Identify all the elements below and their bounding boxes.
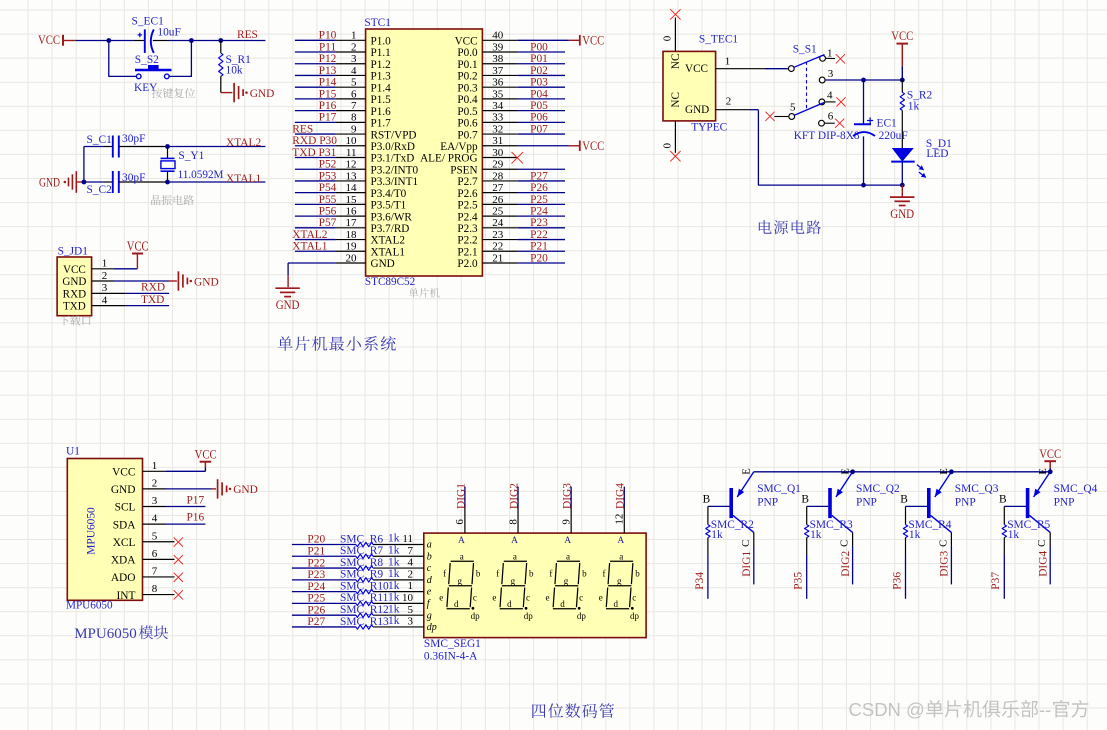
- svg-text:1k: 1k: [388, 533, 400, 545]
- svg-text:d: d: [560, 599, 565, 609]
- svg-text:GND: GND: [276, 298, 300, 312]
- svg-text:P21: P21: [530, 241, 548, 253]
- svg-text:1k: 1k: [711, 529, 723, 541]
- svg-text:P57: P57: [319, 217, 337, 229]
- svg-text:E: E: [939, 468, 950, 474]
- svg-text:VCC: VCC: [112, 467, 135, 479]
- svg-text:P21: P21: [307, 545, 325, 557]
- svg-text:11: 11: [402, 533, 413, 545]
- svg-text:S_JD1: S_JD1: [58, 245, 89, 257]
- svg-text:P0.0: P0.0: [457, 47, 478, 59]
- svg-text:P0.2: P0.2: [457, 71, 477, 83]
- svg-text:INT: INT: [117, 590, 136, 602]
- svg-text:P34: P34: [694, 572, 706, 590]
- svg-text:a: a: [427, 540, 432, 551]
- svg-text:P25: P25: [307, 593, 325, 605]
- svg-text:1k: 1k: [388, 544, 400, 556]
- svg-text:GND: GND: [685, 104, 709, 116]
- svg-text:P2.4: P2.4: [457, 211, 478, 223]
- svg-text:PNP: PNP: [1054, 497, 1075, 509]
- svg-text:11.0592M: 11.0592M: [178, 169, 224, 181]
- svg-text:VCC: VCC: [891, 29, 913, 43]
- svg-text:5: 5: [152, 530, 158, 542]
- svg-text:b: b: [635, 569, 640, 579]
- svg-text:g: g: [458, 576, 463, 586]
- svg-text:P3.4/T0: P3.4/T0: [371, 188, 407, 200]
- svg-text:P17: P17: [186, 495, 204, 507]
- svg-text:VCC: VCC: [63, 264, 86, 276]
- svg-text:S_C2: S_C2: [87, 184, 113, 196]
- svg-text:A: A: [617, 536, 624, 546]
- svg-text:P25: P25: [530, 194, 548, 206]
- svg-text:EA/Vpp: EA/Vpp: [440, 141, 478, 153]
- svg-text:0: 0: [662, 35, 674, 41]
- svg-text:XTAL1: XTAL1: [371, 246, 406, 258]
- svg-text:g: g: [427, 610, 432, 621]
- svg-text:b: b: [427, 551, 432, 562]
- svg-text:PNP: PNP: [856, 497, 877, 509]
- svg-text:P56: P56: [319, 206, 337, 218]
- svg-text:P22: P22: [307, 557, 325, 569]
- svg-text:SMC_Q3: SMC_Q3: [955, 483, 999, 495]
- svg-text:GND: GND: [62, 276, 86, 288]
- svg-text:2: 2: [408, 568, 414, 580]
- svg-text:SMC_R7: SMC_R7: [340, 545, 383, 557]
- svg-text:4: 4: [408, 557, 414, 569]
- svg-text:P27: P27: [307, 616, 325, 628]
- svg-text:P15: P15: [319, 88, 337, 100]
- svg-text:7: 7: [152, 566, 158, 578]
- svg-text:P35: P35: [793, 572, 805, 590]
- svg-text:1k: 1k: [810, 529, 822, 541]
- svg-text:P1.2: P1.2: [371, 59, 391, 71]
- svg-text:P26: P26: [307, 604, 325, 616]
- svg-text:MPU6050: MPU6050: [74, 626, 137, 642]
- svg-text:MPU6050: MPU6050: [86, 507, 98, 555]
- svg-text:2: 2: [102, 270, 108, 282]
- svg-text:9: 9: [560, 519, 572, 525]
- svg-text:STC89C52: STC89C52: [365, 276, 415, 288]
- svg-text:P37: P37: [990, 572, 1002, 590]
- svg-text:g: g: [617, 576, 622, 586]
- svg-text:E: E: [1038, 468, 1049, 474]
- svg-text:SMC_Q2: SMC_Q2: [856, 483, 900, 495]
- svg-text:3: 3: [102, 282, 108, 294]
- svg-text:SMC_Q4: SMC_Q4: [1054, 483, 1098, 495]
- svg-text:RES: RES: [292, 123, 313, 135]
- svg-text:P2.6: P2.6: [457, 188, 478, 200]
- svg-text:e: e: [599, 593, 603, 603]
- svg-text:P20: P20: [307, 534, 325, 546]
- svg-text:e: e: [546, 593, 550, 603]
- svg-text:B: B: [900, 494, 908, 506]
- svg-text:P3.5/T1: P3.5/T1: [371, 200, 407, 212]
- svg-text:P2.7: P2.7: [457, 176, 478, 188]
- svg-text:DIG4: DIG4: [1038, 551, 1050, 577]
- svg-text:GND: GND: [250, 88, 275, 100]
- svg-text:e: e: [427, 587, 432, 598]
- svg-text:6: 6: [828, 111, 834, 123]
- svg-text:TXD P31: TXD P31: [292, 147, 336, 159]
- svg-text:c: c: [427, 563, 432, 574]
- svg-text:f: f: [602, 569, 605, 579]
- svg-text:1k: 1k: [909, 529, 921, 541]
- svg-text:P10: P10: [319, 30, 337, 42]
- svg-text:B: B: [999, 494, 1007, 506]
- svg-text:SDA: SDA: [113, 519, 137, 531]
- svg-text:8: 8: [152, 583, 158, 595]
- svg-text:STC1: STC1: [364, 17, 391, 29]
- svg-text:SCL: SCL: [115, 502, 136, 514]
- svg-text:c: c: [579, 593, 583, 603]
- svg-text:PNP: PNP: [757, 497, 778, 509]
- svg-text:P23: P23: [307, 569, 325, 581]
- svg-text:4: 4: [102, 294, 108, 306]
- svg-text:P06: P06: [530, 112, 548, 124]
- svg-text:P2.5: P2.5: [457, 200, 478, 212]
- svg-text:P14: P14: [319, 77, 337, 89]
- svg-text:dp: dp: [630, 611, 640, 621]
- svg-text:P24: P24: [307, 581, 325, 593]
- svg-text:TXD: TXD: [63, 301, 86, 313]
- svg-text:c: c: [473, 593, 477, 603]
- svg-text:GND: GND: [890, 207, 914, 221]
- svg-text:b: b: [529, 569, 534, 579]
- svg-text:a: a: [460, 551, 464, 561]
- svg-text:VCC: VCC: [455, 36, 478, 48]
- svg-text:SMC_R12: SMC_R12: [340, 604, 389, 616]
- svg-text:P0.3: P0.3: [457, 82, 478, 94]
- svg-text:P36: P36: [891, 572, 903, 590]
- svg-text:ALE/ PROG: ALE/ PROG: [420, 153, 478, 165]
- svg-text:P04: P04: [530, 88, 548, 100]
- svg-text:4: 4: [827, 89, 833, 101]
- svg-text:f: f: [496, 569, 499, 579]
- svg-text:3: 3: [408, 616, 414, 628]
- svg-text:DIG1: DIG1: [741, 551, 753, 577]
- svg-text:6: 6: [152, 548, 158, 560]
- svg-text:P3.6/WR: P3.6/WR: [371, 211, 413, 223]
- svg-text:S_S1: S_S1: [793, 43, 817, 55]
- svg-text:1: 1: [408, 580, 414, 592]
- svg-text:P55: P55: [319, 194, 337, 206]
- svg-text:SMC_R13: SMC_R13: [340, 616, 389, 628]
- svg-text:VCC: VCC: [1039, 447, 1061, 461]
- svg-text:SMC_SEG1: SMC_SEG1: [424, 638, 481, 650]
- svg-text:P3.1/TxD: P3.1/TxD: [371, 153, 415, 165]
- svg-text:P22: P22: [530, 229, 548, 241]
- svg-text:P2.1: P2.1: [457, 246, 477, 258]
- svg-text:P1.7: P1.7: [371, 118, 392, 130]
- svg-text:P05: P05: [530, 100, 548, 112]
- svg-text:P0.1: P0.1: [457, 59, 477, 71]
- svg-text:P3.3/INT1: P3.3/INT1: [371, 176, 419, 188]
- svg-text:RXD: RXD: [141, 282, 165, 294]
- svg-text:dp: dp: [427, 622, 437, 633]
- svg-text:DIG1: DIG1: [455, 483, 467, 509]
- svg-text:A: A: [458, 536, 465, 546]
- svg-text:XTAL2: XTAL2: [292, 229, 327, 241]
- svg-text:7: 7: [408, 545, 414, 557]
- svg-text:P0.5: P0.5: [457, 106, 478, 118]
- svg-text:b: b: [582, 569, 587, 579]
- svg-text:SMC_R10: SMC_R10: [340, 580, 389, 592]
- svg-text:30pF: 30pF: [122, 172, 145, 184]
- svg-text:P54: P54: [319, 182, 337, 194]
- svg-text:GND: GND: [39, 175, 60, 189]
- svg-text:RXD P30: RXD P30: [292, 135, 337, 147]
- svg-text:--: --: [1039, 699, 1051, 720]
- svg-text:DIG2: DIG2: [840, 551, 852, 577]
- svg-text:S_Y1: S_Y1: [178, 150, 204, 162]
- svg-text:P1.5: P1.5: [371, 94, 392, 106]
- svg-text:dp: dp: [471, 611, 481, 621]
- svg-text:NC: NC: [670, 92, 682, 108]
- svg-text:VCC: VCC: [582, 33, 604, 47]
- svg-text:1: 1: [725, 55, 731, 67]
- svg-text:3: 3: [152, 495, 158, 507]
- svg-text:TXD: TXD: [141, 294, 164, 306]
- svg-text:PSEN: PSEN: [450, 164, 477, 176]
- svg-text:SMC_R6: SMC_R6: [340, 533, 383, 545]
- svg-text:10: 10: [402, 592, 414, 604]
- svg-text:g: g: [511, 576, 516, 586]
- svg-text:VCC: VCC: [38, 33, 60, 47]
- svg-text:DIG2: DIG2: [508, 483, 520, 509]
- svg-text:RST/VPD: RST/VPD: [371, 129, 417, 141]
- svg-text:P13: P13: [319, 65, 337, 77]
- svg-text:dp: dp: [524, 611, 534, 621]
- svg-text:S_C1: S_C1: [87, 134, 113, 146]
- svg-text:8: 8: [507, 519, 519, 525]
- svg-text:P1.1: P1.1: [371, 47, 391, 59]
- svg-text:3: 3: [828, 68, 834, 80]
- svg-text:GND: GND: [371, 258, 395, 270]
- svg-text:6: 6: [454, 519, 466, 525]
- svg-text:1k: 1k: [1008, 529, 1020, 541]
- svg-text:a: a: [513, 551, 517, 561]
- svg-text:a: a: [619, 551, 623, 561]
- svg-text:2: 2: [152, 478, 158, 490]
- svg-text:12: 12: [614, 514, 626, 525]
- svg-text:1: 1: [152, 460, 158, 472]
- svg-text:P27: P27: [530, 170, 548, 182]
- svg-text:c: c: [632, 593, 636, 603]
- svg-text:P52: P52: [319, 159, 337, 171]
- svg-text:P3.2/INT0: P3.2/INT0: [371, 164, 419, 176]
- svg-text:U1: U1: [66, 446, 80, 458]
- svg-text:1k: 1k: [388, 580, 400, 592]
- svg-text:a: a: [566, 551, 570, 561]
- svg-text:1k: 1k: [388, 568, 400, 580]
- svg-text:P01: P01: [530, 53, 548, 65]
- svg-text:SMC_Q1: SMC_Q1: [757, 483, 801, 495]
- svg-text:P0.7: P0.7: [457, 129, 478, 141]
- svg-text:P07: P07: [530, 123, 548, 135]
- svg-text:E: E: [840, 468, 851, 474]
- svg-text:d: d: [613, 599, 618, 609]
- svg-text:RES: RES: [237, 29, 258, 41]
- svg-text:GND: GND: [111, 484, 136, 496]
- svg-text:4: 4: [152, 513, 158, 525]
- svg-text:S_TEC1: S_TEC1: [699, 34, 739, 46]
- svg-text:P1.6: P1.6: [371, 106, 392, 118]
- svg-text:VCC: VCC: [582, 139, 604, 153]
- svg-text:E: E: [742, 468, 753, 474]
- svg-text:P26: P26: [530, 182, 548, 194]
- svg-text:1k: 1k: [908, 101, 920, 113]
- svg-text:RXD: RXD: [63, 289, 86, 301]
- svg-text:b: b: [476, 569, 481, 579]
- svg-text:1k: 1k: [388, 615, 400, 627]
- svg-text:P1.0: P1.0: [371, 36, 392, 48]
- svg-text:1k: 1k: [388, 556, 400, 568]
- svg-text:P2.3: P2.3: [457, 223, 478, 235]
- svg-text:P16: P16: [186, 512, 204, 524]
- svg-text:P12: P12: [319, 53, 337, 65]
- svg-text:P17: P17: [319, 112, 337, 124]
- svg-text:g: g: [564, 576, 569, 586]
- svg-text:B: B: [703, 494, 711, 506]
- svg-text:MPU6050: MPU6050: [66, 600, 113, 612]
- svg-text:VCC: VCC: [195, 447, 217, 461]
- svg-text:P2.0: P2.0: [457, 258, 478, 270]
- svg-text:P0.6: P0.6: [457, 118, 478, 130]
- svg-text:SMC_R9: SMC_R9: [340, 569, 383, 581]
- svg-text:P23: P23: [530, 217, 548, 229]
- svg-text:SMC_R8: SMC_R8: [340, 557, 383, 569]
- svg-text:30pF: 30pF: [122, 133, 145, 145]
- svg-text:DIG3: DIG3: [939, 551, 951, 577]
- svg-text:5: 5: [408, 604, 414, 616]
- svg-text:1: 1: [827, 47, 833, 59]
- svg-text:TYPEC: TYPEC: [691, 122, 727, 134]
- svg-text:XTAL2: XTAL2: [226, 137, 261, 149]
- svg-text:C: C: [1037, 540, 1048, 547]
- svg-text:2: 2: [726, 96, 732, 108]
- svg-text:f: f: [443, 569, 446, 579]
- svg-text:P0.4: P0.4: [457, 94, 478, 106]
- svg-text:XCL: XCL: [113, 537, 136, 549]
- svg-text:P3.7/RD: P3.7/RD: [371, 223, 410, 235]
- svg-text:GND: GND: [194, 276, 219, 288]
- svg-text:DIG4: DIG4: [615, 483, 627, 509]
- svg-text:P11: P11: [319, 41, 337, 53]
- svg-text:XTAL1: XTAL1: [226, 173, 261, 185]
- svg-text:C: C: [741, 540, 752, 547]
- svg-text:P24: P24: [530, 206, 548, 218]
- svg-text:e: e: [439, 593, 443, 603]
- svg-text:10k: 10k: [226, 65, 243, 77]
- svg-text:5: 5: [790, 101, 796, 113]
- svg-text:dp: dp: [577, 611, 587, 621]
- svg-text:10uF: 10uF: [157, 26, 180, 38]
- svg-text:P03: P03: [530, 77, 548, 89]
- svg-text:P2.2: P2.2: [457, 235, 477, 247]
- svg-text:XDA: XDA: [111, 555, 136, 567]
- svg-text:B: B: [801, 494, 809, 506]
- svg-text:C: C: [938, 540, 949, 547]
- svg-text:GND: GND: [233, 484, 258, 496]
- svg-text:LED: LED: [926, 148, 948, 160]
- svg-text:VCC: VCC: [685, 63, 708, 75]
- svg-text:SMC_R11: SMC_R11: [340, 592, 389, 604]
- svg-text:KFT DIP-8X8: KFT DIP-8X8: [794, 130, 860, 142]
- svg-text:XTAL2: XTAL2: [371, 235, 406, 247]
- svg-text:ADO: ADO: [111, 572, 136, 584]
- svg-text:1k: 1k: [388, 603, 400, 615]
- svg-text:e: e: [492, 593, 496, 603]
- svg-text:d: d: [507, 599, 512, 609]
- svg-text:P1.4: P1.4: [371, 82, 392, 94]
- svg-text:VCC: VCC: [127, 238, 149, 253]
- svg-text:P16: P16: [319, 100, 337, 112]
- svg-text:P20: P20: [530, 252, 548, 264]
- svg-text:f: f: [549, 569, 552, 579]
- svg-text:EC1: EC1: [877, 118, 898, 130]
- svg-text:XTAL1: XTAL1: [292, 241, 327, 253]
- svg-text:0: 0: [662, 143, 674, 149]
- svg-text:P3.0/RxD: P3.0/RxD: [371, 141, 415, 153]
- svg-text:P00: P00: [530, 41, 548, 53]
- svg-text:PNP: PNP: [955, 497, 976, 509]
- svg-text:220uF: 220uF: [879, 130, 908, 142]
- svg-text:P02: P02: [530, 65, 548, 77]
- svg-text:P53: P53: [319, 170, 337, 182]
- svg-text:A: A: [511, 536, 518, 546]
- svg-text:1: 1: [102, 258, 108, 270]
- svg-text:P1.3: P1.3: [371, 71, 392, 83]
- svg-text:S_S2: S_S2: [135, 54, 159, 66]
- svg-text:d: d: [454, 599, 459, 609]
- svg-text:NC: NC: [670, 54, 682, 70]
- svg-text:CSDN @: CSDN @: [849, 699, 925, 720]
- svg-text:c: c: [526, 593, 530, 603]
- svg-text:A: A: [564, 536, 571, 546]
- svg-text:C: C: [840, 540, 851, 547]
- svg-text:1k: 1k: [388, 592, 400, 604]
- svg-text:DIG3: DIG3: [562, 483, 574, 509]
- svg-text:0.36IN-4-A: 0.36IN-4-A: [424, 650, 478, 662]
